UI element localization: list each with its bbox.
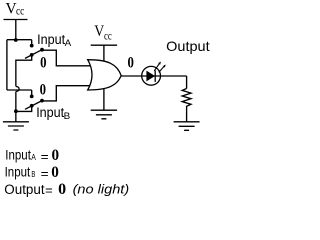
svg-text:=: = — [41, 166, 49, 181]
svg-text:0: 0 — [58, 181, 66, 198]
svg-text:V: V — [6, 1, 17, 18]
svg-text:0: 0 — [51, 164, 59, 181]
svg-text:Output: Output — [166, 38, 210, 54]
svg-text:cc: cc — [104, 29, 112, 43]
svg-text:Input: Input — [37, 32, 65, 47]
svg-text:cc: cc — [16, 6, 24, 18]
svg-text:=: = — [41, 149, 49, 164]
svg-text:Input: Input — [36, 105, 64, 120]
svg-text:B: B — [31, 169, 35, 179]
svg-text:(no light): (no light) — [73, 181, 130, 196]
svg-text:0: 0 — [40, 81, 46, 99]
svg-text:Input: Input — [5, 164, 31, 179]
svg-text:Input: Input — [5, 147, 31, 162]
svg-text:Output: Output — [4, 182, 45, 197]
svg-text:0: 0 — [52, 147, 60, 164]
svg-text:0: 0 — [40, 54, 46, 72]
svg-text:=: = — [45, 182, 53, 197]
svg-text:0: 0 — [128, 54, 134, 72]
svg-text:B: B — [64, 111, 71, 121]
svg-text:A: A — [31, 152, 36, 162]
svg-text:A: A — [65, 38, 72, 48]
